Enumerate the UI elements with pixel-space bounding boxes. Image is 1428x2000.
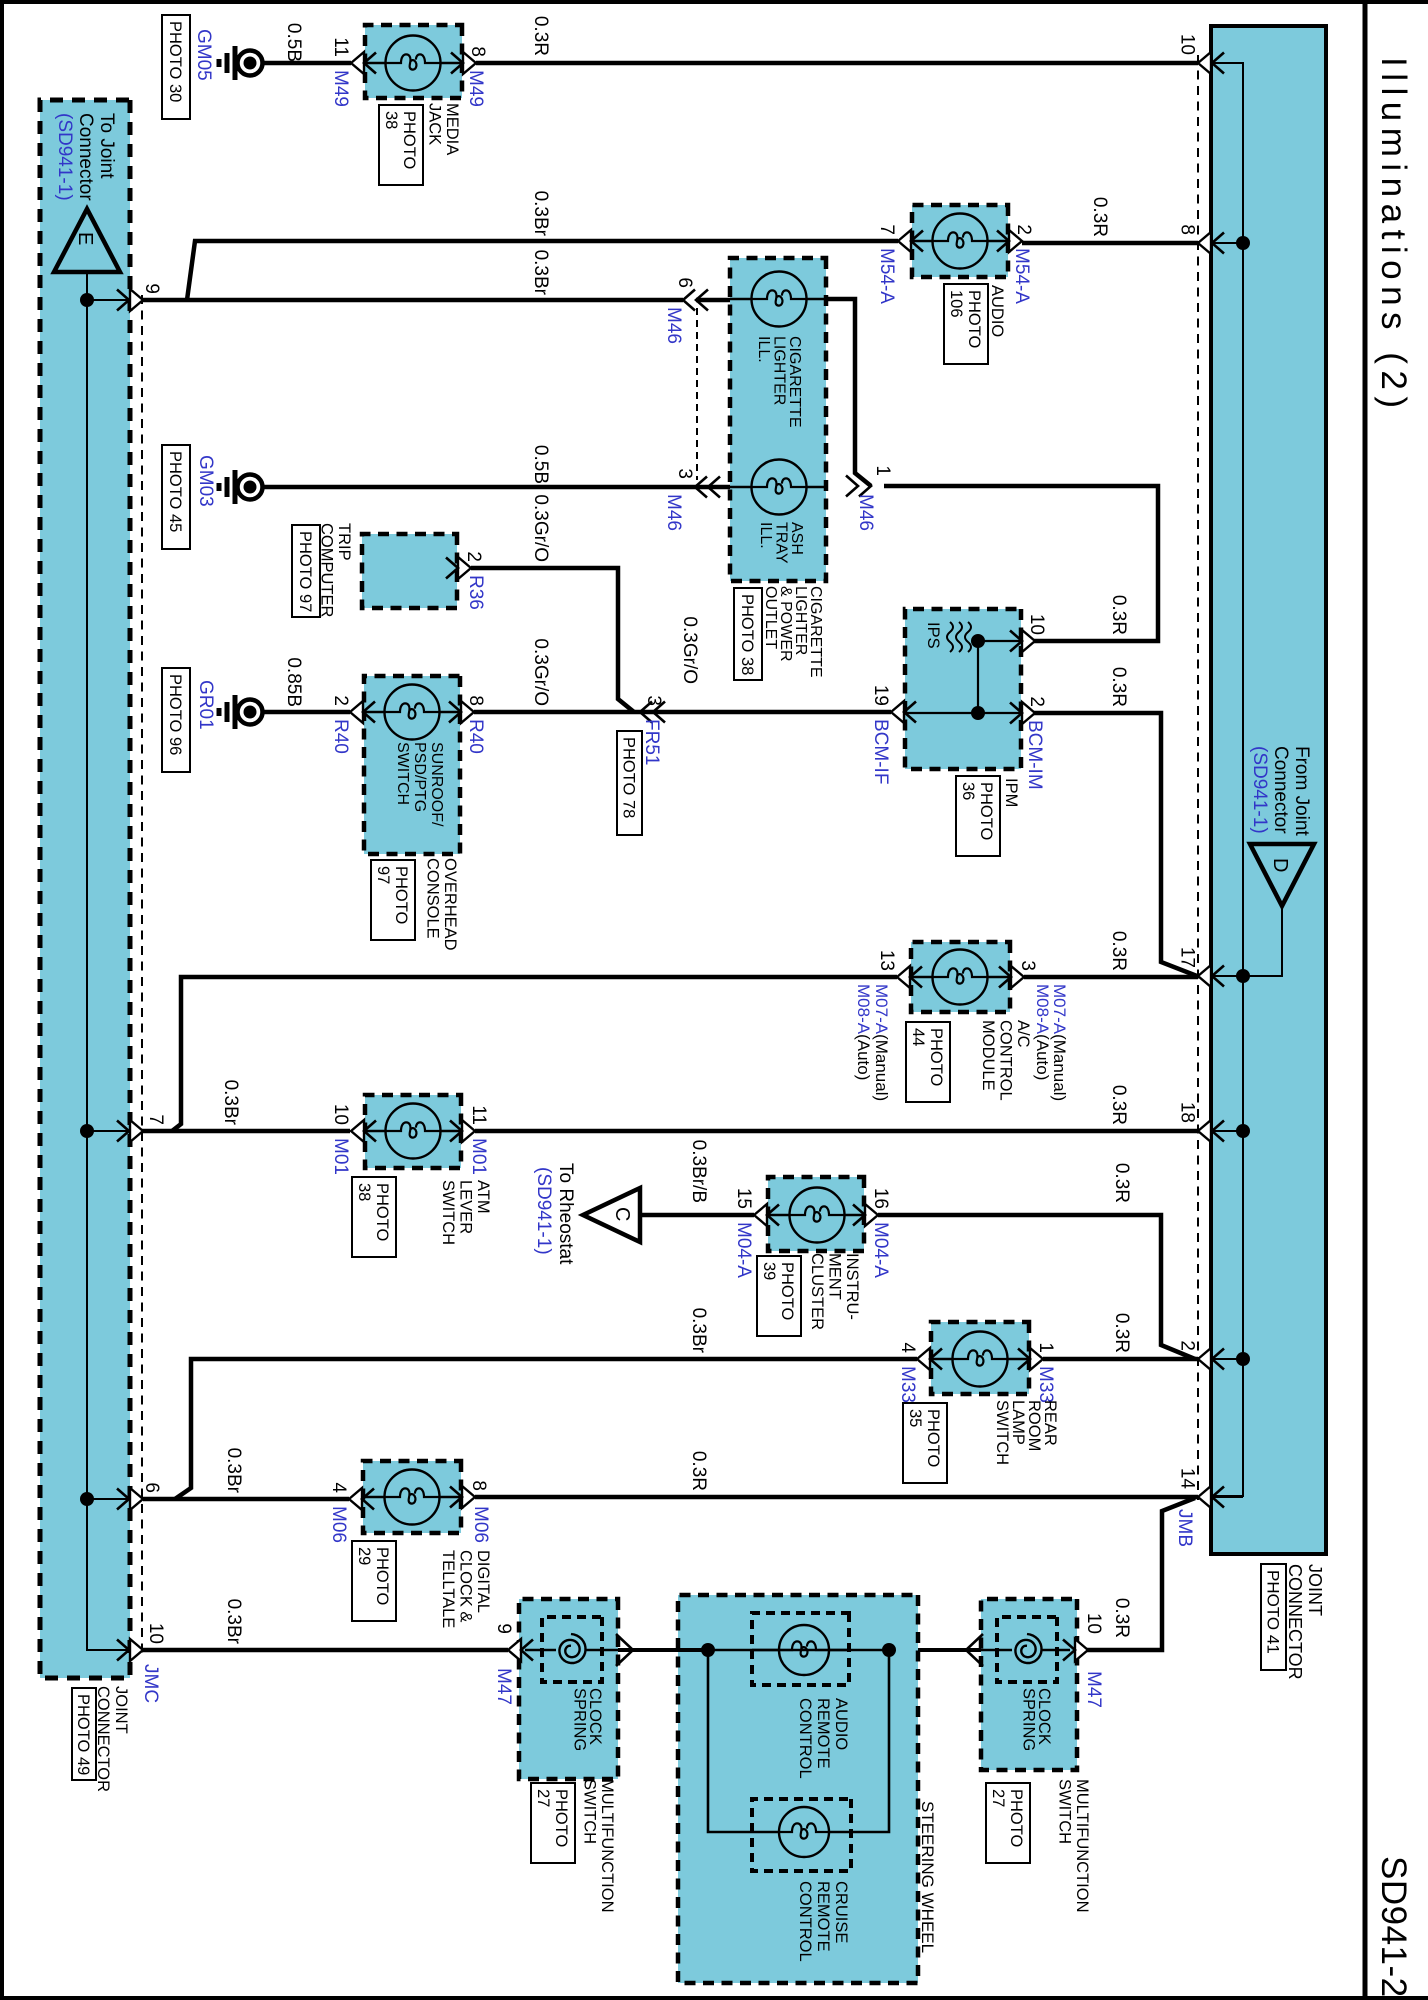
IPM pin 2 xyxy=(1022,702,1035,724)
media jack box xyxy=(365,25,462,98)
svg-text:10: 10 xyxy=(1083,1613,1104,1634)
audio box xyxy=(912,205,1008,277)
wire conn6 to M06 pin4 xyxy=(143,1497,349,1502)
svg-text:Connector: Connector xyxy=(75,113,96,201)
svg-text:0.3Gr/O: 0.3Gr/O xyxy=(530,638,551,706)
wire bar pin10 to media jack xyxy=(476,61,1198,66)
instrument cluster box xyxy=(768,1177,864,1251)
inline connector FR51 xyxy=(640,702,652,723)
svg-text:CIGARETTE: CIGARETTE xyxy=(807,586,824,678)
bar pin 2 xyxy=(1198,1348,1211,1370)
svg-text:MODULE: MODULE xyxy=(979,1020,997,1091)
svg-text:BCM-IF: BCM-IF xyxy=(870,719,891,784)
svg-text:19: 19 xyxy=(870,685,891,706)
svg-text:38: 38 xyxy=(355,1183,373,1201)
svg-text:PHOTO: PHOTO xyxy=(778,1262,796,1321)
svg-text:SWITCH: SWITCH xyxy=(394,742,411,805)
svg-text:14: 14 xyxy=(1177,1468,1198,1490)
svg-text:44: 44 xyxy=(909,1028,927,1046)
cruise branch wires xyxy=(708,1650,752,1832)
wire IPM pin2 to bar pin17 xyxy=(1034,713,1197,976)
svg-text:8: 8 xyxy=(468,1480,489,1491)
svg-text:106: 106 xyxy=(947,290,965,318)
svg-text:0.3Gr/O: 0.3Gr/O xyxy=(530,494,551,562)
wire bar pin8 to audio xyxy=(1022,241,1198,246)
svg-text:GM03: GM03 xyxy=(195,455,216,507)
junction dot pin 2 xyxy=(1236,1352,1250,1366)
svg-text:ROOM: ROOM xyxy=(1025,1400,1043,1451)
media jack wire through box xyxy=(440,62,462,64)
svg-text:REMOTE: REMOTE xyxy=(814,1698,832,1769)
svg-text:PHOTO: PHOTO xyxy=(924,1409,942,1468)
svg-text:M01: M01 xyxy=(468,1138,489,1175)
bar pin 10 xyxy=(1198,52,1211,74)
junction dot steering top xyxy=(882,1643,896,1657)
svg-text:PHOTO 78: PHOTO 78 xyxy=(620,737,638,818)
junction dot conn 9 xyxy=(80,293,94,307)
M33 pin 4 xyxy=(917,1348,930,1370)
svg-text:0.3Br: 0.3Br xyxy=(220,1080,241,1126)
svg-text:0.3R: 0.3R xyxy=(1111,1313,1132,1353)
IPM internal dots and links xyxy=(971,634,985,648)
photo box M46 xyxy=(734,588,762,680)
svg-text:PHOTO 38: PHOTO 38 xyxy=(738,594,756,675)
svg-text:M49: M49 xyxy=(465,70,486,107)
svg-text:8: 8 xyxy=(1177,224,1198,235)
svg-text:SD941-2: SD941-2 xyxy=(1374,1856,1413,1998)
svg-text:SPRING: SPRING xyxy=(571,1688,589,1751)
media jack pin 8 xyxy=(463,52,476,74)
cruise remote control inner box xyxy=(752,1799,851,1871)
svg-text:M54-A: M54-A xyxy=(1011,248,1032,304)
ground GR01 xyxy=(238,700,263,725)
svg-text:CONTROL: CONTROL xyxy=(796,1881,814,1962)
audio remote control inner box xyxy=(752,1613,849,1685)
ATM lever switch box xyxy=(365,1095,461,1168)
svg-text:0.3Br: 0.3Br xyxy=(688,1308,709,1354)
wire pin14 branch to M47 xyxy=(1087,1498,1195,1650)
IPM box xyxy=(905,609,1021,769)
svg-text:M01: M01 xyxy=(330,1138,351,1175)
svg-text:0.3Br: 0.3Br xyxy=(223,1448,244,1494)
svg-text:PHOTO 30: PHOTO 30 xyxy=(166,21,184,102)
svg-text:0.85B: 0.85B xyxy=(283,657,304,707)
svg-text:CRUISE: CRUISE xyxy=(832,1881,850,1943)
svg-text:M47: M47 xyxy=(493,1668,514,1705)
bulb cigarette lighter ill xyxy=(752,272,807,327)
photo box FR51 xyxy=(617,731,642,835)
svg-text:0.3R: 0.3R xyxy=(1108,1085,1129,1125)
svg-text:REAR: REAR xyxy=(1041,1400,1059,1446)
M04 pin 15 xyxy=(754,1204,767,1226)
junction dot steering bottom xyxy=(701,1643,715,1657)
bottom bar bus line xyxy=(87,272,108,1650)
svg-text:E: E xyxy=(74,232,96,245)
svg-text:2: 2 xyxy=(330,695,351,706)
bulb ash tray ill xyxy=(752,460,807,515)
svg-text:JMC: JMC xyxy=(140,1664,161,1703)
svg-text:SWITCH: SWITCH xyxy=(993,1400,1011,1465)
svg-text:39: 39 xyxy=(760,1262,778,1280)
svg-text:MENT: MENT xyxy=(826,1253,844,1300)
svg-text:PSD/PTG: PSD/PTG xyxy=(411,742,428,812)
svg-text:1: 1 xyxy=(1035,1342,1056,1353)
ground GM05 xyxy=(238,51,263,76)
svg-text:PHOTO: PHOTO xyxy=(373,1547,391,1606)
svg-text:0.3R: 0.3R xyxy=(1108,595,1129,635)
triangle D xyxy=(1250,844,1314,906)
svg-text:LIGHTER: LIGHTER xyxy=(771,336,788,405)
svg-text:10: 10 xyxy=(145,1623,166,1644)
svg-text:6: 6 xyxy=(674,277,695,288)
bulb cruise remote xyxy=(779,1807,829,1857)
svg-text:INSTRU-: INSTRU- xyxy=(843,1253,861,1320)
joint connector bus bar (To Joint Connector, bottom, dashed) xyxy=(40,100,130,1678)
photo box GM03 xyxy=(162,445,190,549)
svg-text:CONSOLE: CONSOLE xyxy=(424,858,442,939)
svg-text:PHOTO 96: PHOTO 96 xyxy=(166,674,184,755)
svg-text:MULTIFUNCTION: MULTIFUNCTION xyxy=(598,1779,616,1913)
photo box IPM xyxy=(956,776,1000,856)
svg-text:M08-A(Auto): M08-A(Auto) xyxy=(854,984,873,1080)
page frame left border xyxy=(0,0,1428,4)
photo box GR01 xyxy=(162,668,190,772)
bulb audio xyxy=(933,214,988,269)
bulb M01 xyxy=(386,1104,441,1159)
svg-text:8: 8 xyxy=(467,46,488,57)
svg-text:1: 1 xyxy=(872,465,893,476)
svg-text:4: 4 xyxy=(897,1342,918,1353)
svg-text:0.3R: 0.3R xyxy=(1111,1598,1132,1638)
wire M04 pin15 to triangle C xyxy=(640,1213,754,1218)
M47 right bottom chevron xyxy=(966,1634,983,1666)
AC pin 3 xyxy=(1011,966,1024,988)
svg-text:& POWER: & POWER xyxy=(777,586,794,662)
svg-text:0.3Br/B: 0.3Br/B xyxy=(688,1140,709,1203)
wire M01 pin11 to bar pin18 xyxy=(475,1129,1198,1134)
audio wire through box xyxy=(987,240,1008,242)
svg-text:10: 10 xyxy=(1026,614,1047,635)
top bar pin face dashed line xyxy=(1197,55,1199,1500)
AC bulb wires xyxy=(987,976,1010,978)
photo box media jack xyxy=(379,105,423,185)
bulb M33 xyxy=(953,1332,1008,1387)
svg-text:PHOTO: PHOTO xyxy=(965,290,983,349)
clock spring left spiral xyxy=(559,1634,585,1663)
svg-text:PHOTO: PHOTO xyxy=(1007,1789,1025,1848)
wire M06 pin8 to bar pin14 xyxy=(475,1495,1198,1500)
M47 left top chevron xyxy=(616,1634,633,1666)
svg-text:JOINT: JOINT xyxy=(112,1686,130,1734)
wire M04 pin16 to bar pin2 xyxy=(878,1215,1195,1359)
svg-text:M46: M46 xyxy=(663,307,684,344)
bulb M04 xyxy=(790,1188,845,1243)
triangle E xyxy=(54,209,120,272)
svg-text:7: 7 xyxy=(876,224,897,235)
svg-text:0.3R: 0.3R xyxy=(1108,931,1129,971)
svg-text:STEERING WHEEL: STEERING WHEEL xyxy=(918,1801,937,1953)
photo box GM05 xyxy=(162,15,190,119)
bar pin 8 xyxy=(1198,232,1211,254)
clock spring left outer box xyxy=(519,1599,618,1779)
bottom bar connector 7 xyxy=(130,1120,143,1142)
svg-text:SWITCH: SWITCH xyxy=(581,1779,599,1844)
audio remote wires xyxy=(829,1649,849,1651)
page frame right border xyxy=(0,1996,1428,2000)
svg-text:M49: M49 xyxy=(330,70,351,107)
svg-text:TRAY: TRAY xyxy=(773,522,790,564)
svg-text:Illuminations (2): Illuminations (2) xyxy=(1374,57,1413,415)
bottom bar pin face dashed line xyxy=(141,295,143,1655)
svg-text:ILL.: ILL. xyxy=(755,336,772,363)
clock spring right wires xyxy=(1042,1649,1070,1651)
ground GM03 xyxy=(238,475,263,500)
svg-text:0.3R: 0.3R xyxy=(1108,667,1129,707)
svg-text:36: 36 xyxy=(959,782,977,800)
svg-text:8: 8 xyxy=(465,695,486,706)
M06 pin 8 xyxy=(462,1486,475,1508)
wire steering main xyxy=(708,1649,889,1652)
svg-text:To Joint: To Joint xyxy=(96,113,117,179)
svg-text:CONNECTOR: CONNECTOR xyxy=(1285,1564,1305,1680)
photo box AC xyxy=(906,1022,950,1102)
svg-text:From Joint: From Joint xyxy=(1291,746,1312,836)
M06 pin 4 xyxy=(349,1488,362,1510)
svg-text:TRIP: TRIP xyxy=(335,523,353,561)
wire cig bulb to conn1 xyxy=(826,299,871,486)
wire M33 pin1 to bar pin2 xyxy=(1043,1357,1198,1362)
svg-text:BCM-IM: BCM-IM xyxy=(1024,720,1045,790)
svg-text:PHOTO: PHOTO xyxy=(400,111,418,170)
wire R36 to FR51 xyxy=(471,568,634,712)
svg-text:CLOCK: CLOCK xyxy=(1035,1688,1053,1745)
M47 right pin 10 xyxy=(1075,1639,1088,1661)
svg-text:GM05: GM05 xyxy=(193,29,214,81)
photo box M04 xyxy=(757,1256,801,1336)
svg-text:PHOTO: PHOTO xyxy=(392,866,410,925)
svg-text:3: 3 xyxy=(1017,960,1038,971)
svg-text:Connector: Connector xyxy=(1270,746,1291,834)
svg-text:0.3R: 0.3R xyxy=(1089,197,1110,237)
wire conn7 to M01 pin10 xyxy=(142,1129,350,1134)
junction dot pin 17 xyxy=(1236,969,1250,983)
wire media jack to GM05 xyxy=(262,61,351,66)
wire D apex to pin 17 dot xyxy=(1243,906,1282,976)
svg-text:PHOTO: PHOTO xyxy=(927,1028,945,1087)
svg-text:PHOTO: PHOTO xyxy=(373,1183,391,1242)
svg-text:A/C: A/C xyxy=(1014,1020,1032,1048)
sunroof switch box R40 xyxy=(364,676,460,854)
svg-text:29: 29 xyxy=(355,1547,373,1565)
svg-text:DIGITAL: DIGITAL xyxy=(474,1550,492,1613)
svg-text:2: 2 xyxy=(1026,696,1047,707)
M04 bulb wires xyxy=(844,1214,864,1216)
wire R40 pin2 to GR01 xyxy=(262,710,350,715)
bottom bar connector 6 xyxy=(130,1488,143,1510)
svg-text:3: 3 xyxy=(643,695,664,706)
svg-text:M46: M46 xyxy=(855,494,876,531)
R40 bulb wires xyxy=(439,711,460,713)
svg-text:35: 35 xyxy=(906,1409,924,1427)
svg-text:R40: R40 xyxy=(465,719,486,754)
clock spring right inner box xyxy=(997,1617,1057,1682)
svg-text:(SD941-1): (SD941-1) xyxy=(533,1167,554,1255)
svg-text:0.5B: 0.5B xyxy=(530,445,551,484)
M46 box cigarette lighter power outlet xyxy=(730,258,826,581)
svg-text:OUTLET: OUTLET xyxy=(762,586,779,649)
svg-text:9: 9 xyxy=(493,1623,514,1634)
R40 pin 8 xyxy=(461,701,474,723)
svg-text:MULTIFUNCTION: MULTIFUNCTION xyxy=(1073,1779,1091,1913)
svg-text:2: 2 xyxy=(1013,224,1034,235)
steering wheel box xyxy=(678,1595,918,1983)
joint connector bus bar (From Joint Connector, top) xyxy=(1211,26,1326,1554)
IPM pin 10 xyxy=(1022,630,1035,652)
M46 inline connector 3 xyxy=(695,477,707,498)
bulb R40 xyxy=(385,685,440,740)
digital clock box xyxy=(363,1461,461,1533)
wire bar pin17 to AC pin3 xyxy=(1024,975,1198,980)
wire IPM pin19 to R40 pin8 xyxy=(474,710,891,715)
R36 pin 2 xyxy=(458,557,471,579)
svg-text:M33: M33 xyxy=(1035,1366,1056,1403)
svg-text:REMOTE: REMOTE xyxy=(814,1881,832,1952)
svg-text:6: 6 xyxy=(141,1482,162,1493)
svg-text:97: 97 xyxy=(374,866,392,884)
audio pin 2 xyxy=(1009,230,1022,252)
wire conn3 segment xyxy=(262,485,730,490)
svg-text:0.3R: 0.3R xyxy=(1111,1163,1132,1203)
svg-text:JOINT: JOINT xyxy=(1305,1564,1325,1616)
svg-text:R36: R36 xyxy=(465,575,486,610)
wire conn1 up to elbow and IPM pin10 xyxy=(884,486,1158,641)
svg-text:0.3Br: 0.3Br xyxy=(530,191,551,237)
AC control module box xyxy=(911,942,1010,1012)
top bar internal bus line xyxy=(1211,63,1243,1496)
svg-text:To Rheostat: To Rheostat xyxy=(555,1163,576,1265)
svg-text:3: 3 xyxy=(674,468,695,479)
svg-text:C: C xyxy=(611,1207,633,1221)
svg-text:0.3R: 0.3R xyxy=(530,16,551,56)
bottom bar connector 9 xyxy=(130,289,143,311)
svg-text:AUDIO: AUDIO xyxy=(832,1698,850,1750)
cig bulb wires xyxy=(806,298,826,300)
svg-text:MEDIA: MEDIA xyxy=(443,103,461,155)
junction dot conn 6 xyxy=(80,1492,94,1506)
svg-text:CLOCK &: CLOCK & xyxy=(457,1550,475,1622)
svg-text:PHOTO 45: PHOTO 45 xyxy=(166,451,184,532)
bottom bar connector 10 xyxy=(130,1639,143,1661)
svg-text:LIGHTER: LIGHTER xyxy=(792,586,809,655)
rear room lamp switch box xyxy=(931,1322,1029,1394)
photo box M33 xyxy=(903,1403,947,1483)
audio pin 7 xyxy=(898,230,911,252)
svg-text:M06: M06 xyxy=(328,1506,349,1543)
photo box R36 xyxy=(292,525,320,617)
svg-text:M54-A: M54-A xyxy=(876,248,897,304)
page frame bottom border xyxy=(0,0,4,2000)
wire M47 right to steering box xyxy=(889,1648,981,1652)
wire conn9 to conn6 xyxy=(142,298,683,303)
svg-text:IPS: IPS xyxy=(924,622,942,649)
svg-text:27: 27 xyxy=(534,1789,552,1807)
M01 pin 11 xyxy=(462,1120,475,1142)
svg-text:0.5B: 0.5B xyxy=(283,23,304,62)
clock spring left wires xyxy=(586,1649,618,1651)
svg-text:27: 27 xyxy=(989,1789,1007,1807)
svg-text:PHOTO: PHOTO xyxy=(552,1789,570,1848)
svg-text:ASH: ASH xyxy=(788,522,805,555)
clock spring right spiral xyxy=(1015,1634,1041,1663)
svg-text:IPM: IPM xyxy=(1002,778,1020,807)
svg-text:17: 17 xyxy=(1177,947,1198,968)
svg-text:2: 2 xyxy=(463,551,484,562)
IPM pin 19 xyxy=(891,701,904,723)
svg-text:M04-A: M04-A xyxy=(733,1222,754,1278)
M01 pin 10 xyxy=(351,1120,364,1142)
svg-text:CONTROL: CONTROL xyxy=(796,1698,814,1779)
M04 pin 16 xyxy=(865,1204,878,1226)
svg-text:4: 4 xyxy=(328,1482,349,1493)
M46 link dashed line xyxy=(696,308,698,480)
svg-text:18: 18 xyxy=(1177,1102,1198,1123)
svg-text:SWITCH: SWITCH xyxy=(1056,1779,1074,1844)
wire AC pin13 down xyxy=(172,977,897,1131)
photo box R40 xyxy=(371,860,415,940)
photo box audio xyxy=(944,284,988,364)
bulb audio remote xyxy=(779,1625,829,1675)
svg-text:GR01: GR01 xyxy=(195,680,216,730)
svg-text:11: 11 xyxy=(468,1105,489,1125)
svg-text:0.3Br: 0.3Br xyxy=(530,250,551,296)
svg-text:LEVER: LEVER xyxy=(457,1180,475,1234)
wire audio pin7 down xyxy=(187,241,898,300)
svg-text:10: 10 xyxy=(1177,34,1198,55)
svg-text:CLOCK: CLOCK xyxy=(586,1688,604,1745)
svg-text:CONTROL: CONTROL xyxy=(997,1020,1015,1101)
svg-text:LAMP: LAMP xyxy=(1009,1400,1027,1445)
photo box M06 xyxy=(352,1541,396,1621)
svg-text:10: 10 xyxy=(330,1104,351,1125)
svg-text:SPRING: SPRING xyxy=(1020,1688,1038,1751)
bulb AC xyxy=(933,950,988,1005)
svg-text:SWITCH: SWITCH xyxy=(439,1180,457,1245)
svg-text:M33: M33 xyxy=(897,1366,918,1403)
svg-text:0.3Br: 0.3Br xyxy=(223,1599,244,1645)
svg-text:M46: M46 xyxy=(663,494,684,531)
svg-text:JMB: JMB xyxy=(1174,1509,1195,1547)
photo box M47 right xyxy=(986,1783,1030,1863)
svg-text:M06: M06 xyxy=(470,1506,491,1543)
svg-text:PHOTO: PHOTO xyxy=(977,782,995,841)
wire M33 pin4 down to conn6 xyxy=(175,1359,917,1499)
triangle C xyxy=(583,1188,640,1242)
M01 bulb wires xyxy=(440,1130,461,1132)
M33 bulb wires xyxy=(1008,1358,1029,1360)
M47 left pin 9 xyxy=(508,1639,521,1661)
M46 inline connector 6 xyxy=(683,290,695,311)
svg-text:R40: R40 xyxy=(330,719,351,754)
svg-text:38: 38 xyxy=(382,111,400,129)
svg-text:M04-A: M04-A xyxy=(870,1222,891,1278)
svg-text:CLUSTER: CLUSTER xyxy=(808,1253,826,1330)
R40 pin 2 xyxy=(350,701,363,723)
svg-text:JACK: JACK xyxy=(426,103,444,145)
svg-text:M08-A(Auto): M08-A(Auto) xyxy=(1033,984,1052,1080)
svg-text:ILL.: ILL. xyxy=(757,522,774,549)
svg-text:PHOTO 49: PHOTO 49 xyxy=(74,1694,92,1775)
wire conn6 into box xyxy=(696,298,730,303)
